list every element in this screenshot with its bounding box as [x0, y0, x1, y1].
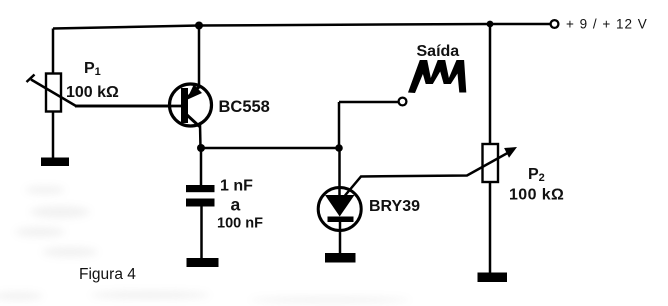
- svg-text:BRY39: BRY39: [369, 198, 420, 215]
- svg-text:100 kΩ: 100 kΩ: [509, 187, 564, 204]
- svg-text:Saída: Saída: [417, 43, 460, 60]
- svg-text:a: a: [231, 195, 241, 215]
- svg-text:Figura 4: Figura 4: [79, 266, 136, 283]
- svg-text:1 nF: 1 nF: [220, 178, 253, 195]
- svg-text:100 kΩ: 100 kΩ: [66, 84, 119, 101]
- svg-text:+ 9 / + 12 V: + 9 / + 12 V: [566, 17, 648, 32]
- svg-text:BC558: BC558: [219, 98, 270, 116]
- svg-text:100 nF: 100 nF: [217, 216, 263, 232]
